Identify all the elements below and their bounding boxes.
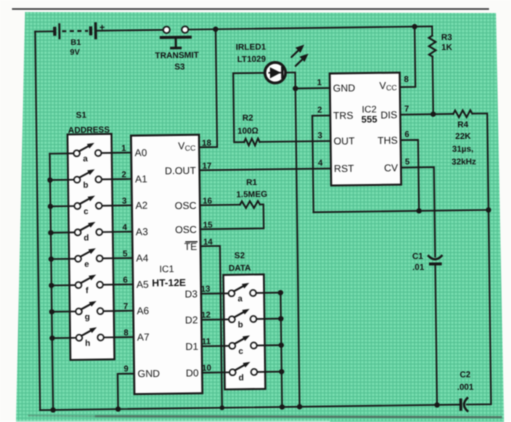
resistor R4 — [453, 110, 472, 117]
svg-text:2: 2 — [122, 169, 127, 179]
svg-text:OSC: OSC — [175, 225, 197, 236]
wire: IC2 pin 3 OUT to R2 — [260, 140, 331, 143]
S2 DATA switch box — [223, 274, 265, 389]
svg-text:d: d — [239, 372, 244, 382]
IC1 right pin numbers — [199, 138, 215, 373]
svg-text:3: 3 — [122, 196, 127, 206]
wire: TRS-THS tie line — [314, 210, 489, 212]
svg-text:16: 16 — [203, 196, 213, 206]
battery B1 — [53, 22, 105, 40]
label S1 ADDRESS — [68, 109, 110, 135]
svg-text:1: 1 — [317, 77, 322, 87]
svg-text:CV: CV — [384, 163, 398, 174]
svg-text:b: b — [238, 319, 243, 329]
svg-text:4: 4 — [122, 222, 127, 232]
wire: LED cathode to ground vertical — [286, 72, 300, 406]
LED emission arrows — [291, 45, 308, 66]
junction: timing node at right vertical — [486, 207, 491, 212]
svg-text:R4: R4 — [457, 119, 468, 129]
svg-text:g: g — [85, 311, 90, 321]
wire: right vertical down to capacitor C2 — [464, 210, 491, 405]
switch S2-b with feed wires from IC1 D2 — [201, 308, 281, 329]
svg-text:9V: 9V — [70, 48, 81, 57]
svg-text:D.OUT: D.OUT — [165, 166, 196, 177]
IC2 pin numbers — [317, 74, 410, 168]
svg-text:D0: D0 — [186, 368, 199, 379]
svg-text:555: 555 — [361, 114, 378, 125]
wire: R4 to right-side vertical down to tie node — [472, 113, 488, 210]
svg-text:c: c — [238, 346, 243, 356]
svg-text:6: 6 — [123, 275, 128, 285]
switch S2-a with feed wires from IC1 D3 — [201, 282, 281, 303]
capacitor C2 — [459, 398, 467, 411]
svg-text:e: e — [84, 259, 89, 269]
wire: IC2 pin 5 CV right and down to C1 — [401, 167, 435, 257]
svg-text:THS: THS — [378, 136, 398, 147]
svg-text:OSC: OSC — [175, 201, 197, 212]
svg-text:A1: A1 — [135, 174, 148, 185]
svg-text:VCC: VCC — [379, 81, 397, 93]
switch S1-h with feed wires and IC1 pin 8 stub — [52, 327, 134, 349]
resistor R3 — [429, 26, 437, 114]
svg-text:A6: A6 — [137, 306, 150, 317]
wire: IC2 pin 2 TRS loop to tie line — [312, 116, 331, 213]
svg-text:5: 5 — [123, 248, 128, 258]
svg-text:A5: A5 — [136, 280, 149, 291]
svg-text:.01: .01 — [412, 262, 424, 272]
svg-text:D3: D3 — [185, 289, 198, 300]
junction: S2 bus at bottom rail — [279, 404, 284, 409]
junction: TE wire at bottom rail — [220, 405, 225, 410]
svg-text:13: 13 — [201, 284, 211, 294]
label B1 9V — [70, 38, 82, 57]
label IC1 HT-12E — [152, 264, 187, 289]
wire: top rail down to IC2 pin 8 VCC — [399, 27, 415, 87]
svg-text:D1: D1 — [185, 342, 198, 353]
svg-text:9: 9 — [124, 363, 129, 373]
label R3 1K — [441, 32, 453, 52]
label S2 DATA — [228, 250, 251, 273]
junction: C1 at bottom rail — [434, 402, 439, 407]
svg-text:7: 7 — [123, 301, 128, 311]
svg-text:7: 7 — [404, 103, 409, 113]
svg-text:S2: S2 — [234, 250, 245, 260]
junction: S1 bus at bottom rail — [50, 407, 55, 412]
svg-text:D2: D2 — [185, 315, 198, 326]
label R2 100ohm — [237, 112, 258, 135]
svg-text:b: b — [83, 180, 88, 190]
wire: top rail switch S3 to R3 corner — [188, 26, 432, 29]
svg-text:4: 4 — [318, 158, 323, 168]
junction: top rail to IC2 VCC — [412, 24, 417, 29]
wire: IC2 pin 1 GND stub — [295, 87, 329, 89]
svg-text:1K: 1K — [441, 42, 453, 52]
wire: top rail battery negative stub — [35, 30, 53, 32]
junction: DIS node (R3/R4/pin7) — [431, 111, 436, 116]
switch S1-c with feed wires and IC1 pin 3 stub — [50, 195, 132, 216]
IC1 right pin name labels — [164, 141, 199, 380]
svg-text:d: d — [84, 232, 89, 242]
wire: bottom negative supply rail — [40, 405, 460, 410]
svg-text:A2: A2 — [135, 201, 148, 212]
svg-text:ADDRESS: ADDRESS — [68, 124, 110, 135]
wire: IC1 pin 9 GND to bottom rail — [118, 374, 135, 410]
svg-text:14: 14 — [203, 237, 213, 247]
wire: IC2 pin 6 THS down to tie line — [401, 140, 419, 211]
svg-text:10: 10 — [202, 363, 212, 373]
svg-text:HT-12E: HT-12E — [152, 278, 186, 289]
switch S2-d with feed wires from IC1 D0 — [202, 361, 282, 382]
wire: IC1 D.OUT pin 17 to IC2 RST pin 4 — [199, 169, 330, 171]
switch S1-f with feed wires and IC1 pin 6 stub — [51, 274, 133, 296]
svg-text:18: 18 — [202, 138, 212, 148]
pushbutton switch S3 TRANSMIT — [161, 26, 190, 48]
switch S1-a with feed wires and IC1 pin 1 stub — [50, 142, 132, 163]
svg-text:GND: GND — [138, 369, 160, 380]
wire: battery negative lead down left side — [35, 32, 40, 411]
svg-text:1.5MEG: 1.5MEG — [236, 189, 268, 199]
junction: top rail to IC1 VCC — [213, 26, 218, 31]
svg-text:GND: GND — [333, 83, 355, 94]
label R4 22K 31us 32kHz — [451, 119, 476, 167]
label R1 1.5MEG — [236, 177, 268, 199]
svg-text:TRANSMIT: TRANSMIT — [155, 50, 200, 61]
svg-text:A4: A4 — [136, 253, 149, 264]
junction: GND wire at bottom rail — [115, 406, 120, 411]
svg-text:a: a — [83, 153, 88, 163]
svg-text:R3: R3 — [441, 32, 452, 42]
svg-text:11: 11 — [202, 336, 211, 346]
svg-text:1: 1 — [121, 143, 126, 153]
switch S1-g with feed wires and IC1 pin 7 stub — [52, 301, 134, 322]
wire: IC2 pin 7 DIS to R4 — [400, 113, 453, 116]
svg-text:+: + — [99, 22, 105, 33]
resistor R2 — [244, 139, 260, 146]
svg-text:h: h — [85, 338, 90, 348]
wire: IC1 pin 14 TE down to bottom rail — [200, 246, 222, 408]
svg-text:31µs,: 31µs, — [452, 144, 474, 154]
svg-text:17: 17 — [202, 161, 212, 171]
svg-text:c: c — [84, 206, 89, 216]
IC2 555 body — [330, 73, 401, 186]
svg-text:OUT: OUT — [334, 136, 355, 147]
svg-text:3: 3 — [318, 130, 323, 140]
svg-text:A3: A3 — [136, 227, 149, 238]
svg-text:R2: R2 — [242, 113, 253, 123]
label IC2 555 — [361, 104, 378, 125]
svg-text:8: 8 — [124, 327, 129, 337]
svg-text:A7: A7 — [137, 332, 150, 343]
wire: top rail down to IC1 pin 18 VCC — [198, 29, 218, 147]
wire: C1 down to bottom rail — [435, 265, 437, 404]
svg-text:A0: A0 — [135, 148, 148, 159]
svg-text:.001: .001 — [457, 382, 474, 392]
capacitor C1 — [429, 256, 442, 266]
svg-text:6: 6 — [405, 129, 410, 139]
junction: IC2 GND stub — [293, 86, 298, 91]
svg-text:C2: C2 — [460, 369, 471, 379]
svg-text:5: 5 — [405, 156, 410, 166]
svg-text:a: a — [238, 293, 243, 303]
LED IRLED1 — [265, 62, 286, 83]
svg-text:15: 15 — [203, 220, 213, 230]
junction: THS to tie line — [416, 208, 421, 213]
svg-text:22K: 22K — [455, 131, 472, 141]
resistor R1 between OSC pins — [200, 201, 264, 229]
S1 ADDRESS switch box — [67, 134, 114, 360]
IC2 pin name labels — [333, 81, 399, 175]
label IRLED1 LT1029 — [236, 42, 267, 64]
wire: R2 up to LED anode — [233, 73, 265, 142]
switch S1-b with feed wires and IC1 pin 2 stub — [50, 169, 132, 191]
junctions: S1 bus taps — [47, 177, 55, 341]
svg-text:8: 8 — [404, 74, 409, 84]
svg-text:32kHz: 32kHz — [452, 156, 477, 166]
switch S1-d with feed wires and IC1 pin 4 stub — [51, 221, 133, 243]
IC1 HT-12E body — [131, 135, 202, 394]
junctions: S2 bus taps — [278, 290, 285, 374]
svg-text:2: 2 — [317, 105, 322, 115]
svg-text:DIS: DIS — [381, 110, 398, 121]
switch S2-c with feed wires from IC1 D1 — [202, 335, 282, 356]
svg-text:C1: C1 — [412, 251, 423, 261]
svg-text:TRS: TRS — [333, 111, 353, 122]
svg-text:IRLED1: IRLED1 — [236, 42, 267, 52]
switch S1-e with feed wires and IC1 pin 5 stub — [51, 248, 133, 269]
svg-text:VCC: VCC — [178, 141, 196, 153]
label C1 .01 — [412, 251, 424, 272]
IC1 left pin numbers 1-9 — [121, 143, 130, 374]
svg-text:12: 12 — [201, 310, 211, 320]
wire: top rail battery to switch S3 — [97, 29, 163, 32]
svg-text:TE: TE — [184, 242, 197, 253]
svg-text:RST: RST — [334, 164, 354, 175]
svg-text:B1: B1 — [71, 38, 82, 47]
IC1 left pin name labels A0-A7 GND — [135, 148, 160, 380]
label TRANSMIT S3 — [155, 50, 200, 72]
svg-text:100Ω: 100Ω — [237, 125, 258, 135]
svg-text:R1: R1 — [246, 177, 257, 187]
label C2 .001 — [457, 369, 474, 392]
svg-text:LT1029: LT1029 — [237, 54, 266, 64]
svg-text:f: f — [86, 285, 89, 295]
wire: S1 common bus — [50, 154, 53, 410]
svg-text:IC1: IC1 — [159, 264, 174, 275]
svg-text:DATA: DATA — [228, 263, 250, 273]
junction: ground vertical at bottom rail — [297, 404, 302, 409]
svg-text:S3: S3 — [174, 61, 185, 71]
wire: S2 common bus down to bottom rail — [281, 293, 282, 407]
svg-text:S1: S1 — [76, 110, 87, 120]
